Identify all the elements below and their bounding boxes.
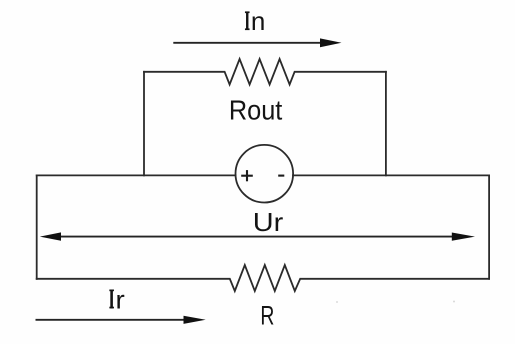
svg-text:Ir: Ir xyxy=(108,284,125,314)
svg-text:Rout: Rout xyxy=(229,94,283,125)
svg-text:In: In xyxy=(244,6,266,36)
svg-text:R: R xyxy=(260,301,274,331)
svg-text:Ur: Ur xyxy=(253,207,284,237)
